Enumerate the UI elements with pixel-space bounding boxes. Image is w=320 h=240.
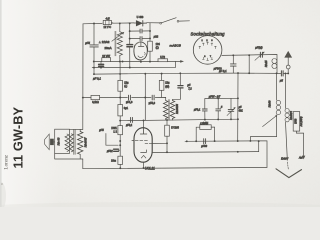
wire T1 bottom lead	[119, 55, 121, 61]
svg-text:12 V C: 12 V C	[103, 26, 111, 29]
wire left vertical	[82, 24, 84, 130]
arrow Erde terminal	[286, 157, 289, 161]
wire T3 hookup top	[69, 129, 82, 131]
wire UY bottom	[140, 60, 142, 62]
wire BX to Ant	[296, 131, 303, 156]
node y152 x238	[237, 151, 239, 153]
svg-text:Rfe6005: Rfe6005	[175, 104, 179, 114]
capacitor C-el1	[127, 45, 133, 47]
svg-text:Ant (60/4): Ant (60/4)	[300, 116, 303, 127]
svg-text:081: 081	[239, 110, 244, 113]
svg-text:10m: 10m	[111, 159, 116, 162]
svg-text:µF5,0: µF5,0	[149, 102, 156, 105]
wire T2 right top	[173, 99, 181, 100]
coil L3	[272, 59, 277, 64]
svg-text:U 408: U 408	[137, 16, 144, 19]
resistor U72	[158, 59, 168, 62]
svg-text:Rfe60/4: Rfe60/4	[290, 111, 293, 120]
svg-text:7,2: 7,2	[188, 88, 192, 91]
transformer T2 left winding	[163, 101, 168, 119]
svg-text:Ant: Ant	[298, 157, 303, 160]
svg-text:12µ: 12µ	[124, 81, 129, 84]
svg-text:⊥ 12Volt: ⊥ 12Volt	[99, 40, 110, 44]
nodes bus B	[93, 73, 95, 75]
svg-text:scABCΒ: scABCΒ	[170, 43, 182, 47]
wire T3 hookup bottom	[55, 154, 83, 160]
ground chassis V	[276, 169, 302, 178]
wire x106 branch	[106, 134, 118, 146]
svg-text:µF: µF	[187, 84, 190, 87]
capacitor Cb2	[217, 98, 219, 119]
capacitor Cb series	[204, 139, 206, 144]
tube UCL11 grid2	[145, 142, 152, 144]
capacitor 50u	[90, 45, 98, 47]
resistor DW1	[118, 126, 123, 135]
title placeholder	[0, 0, 1, 1]
node x83 y97	[82, 97, 84, 99]
transformer T2 core	[169, 100, 170, 120]
capacitor C-s1	[140, 29, 142, 33]
node caps	[129, 30, 131, 32]
nodes line A	[93, 61, 95, 63]
capacitor C-el3	[114, 149, 119, 151]
svg-text:8 7: 8 7	[204, 56, 213, 58]
coil L2	[285, 73, 287, 157]
capacitor C-s2	[140, 37, 142, 41]
resistor R1	[118, 80, 123, 91]
nodes line C	[93, 67, 95, 69]
wire line y152	[152, 141, 259, 152]
capacitor Cb3 variable	[230, 98, 232, 119]
capacitor C-el2	[100, 62, 102, 68]
capacitor C-series right	[281, 71, 283, 76]
svg-text:Lorenz: Lorenz	[4, 154, 10, 169]
fuse F1	[102, 20, 113, 24]
tube UCL11 filament	[141, 155, 146, 158]
arrow L1 adjust	[263, 116, 277, 127]
field winding	[65, 134, 69, 152]
switch S1	[160, 18, 190, 24]
svg-text:(1): (1)	[156, 46, 159, 49]
coil L1	[250, 73, 276, 141]
wire T3 right bottom	[82, 159, 84, 169]
resistor R4	[148, 41, 153, 51]
svg-text:12 V07: 12 V07	[102, 55, 111, 58]
wire y55	[222, 55, 277, 74]
transformer T1 winding	[117, 32, 122, 56]
transformer T3 right winding	[78, 132, 83, 155]
svg-text:(W): (W)	[165, 85, 169, 88]
svg-text:1 2 3: 1 2 3	[202, 40, 215, 42]
filter box BX	[293, 112, 300, 132]
speaker LS	[45, 134, 50, 150]
resistor R01k	[91, 95, 100, 99]
transformer T1 core	[114, 31, 117, 56]
wire lead y143.4	[152, 142, 167, 144]
resistor R2	[118, 105, 123, 116]
node x238 y141	[237, 140, 239, 142]
antenna symbol	[284, 51, 292, 58]
svg-text:-0,5: -0,5	[105, 18, 110, 21]
svg-text:µF0,1: µF0,1	[126, 124, 133, 127]
svg-text:1500: 1500	[295, 118, 297, 124]
svg-text:µF600: µF600	[214, 67, 222, 71]
svg-text:1 2: 1 2	[113, 130, 117, 133]
capacitor Cb1	[204, 99, 206, 120]
wire x249	[248, 55, 250, 73]
nodes y55	[232, 54, 234, 56]
capacitor C y120	[131, 117, 133, 122]
svg-text:Rfe 60: Rfe 60	[56, 137, 60, 145]
resistor B12V	[102, 58, 111, 62]
svg-text:µF 0,1: µF 0,1	[93, 76, 101, 80]
svg-text:Rfe6007: Rfe6007	[84, 137, 88, 147]
tube UCL11	[134, 128, 152, 163]
svg-text:µF02: µF02	[107, 150, 113, 153]
svg-text:0µ1: 0µ1	[124, 107, 129, 110]
wire line C	[92, 61, 175, 67]
node lead	[166, 142, 168, 144]
capacitor trimmer CT	[260, 52, 262, 57]
nodes x120	[119, 97, 121, 99]
resistor R10m	[118, 156, 123, 164]
resistor DY105	[166, 120, 168, 152]
node top x94	[93, 23, 95, 25]
pencil mark	[134, 42, 139, 45]
transformer T2 right winding	[170, 101, 175, 119]
svg-text:Rfe15: Rfe15	[265, 60, 268, 67]
svg-text:(L): (L)	[124, 85, 127, 88]
nodes y120	[143, 119, 145, 121]
svg-text:µF5: µF5	[85, 41, 90, 45]
node y97 x145	[144, 97, 146, 99]
svg-text:0,1kΩ: 0,1kΩ	[92, 101, 99, 104]
capacitor C600	[232, 55, 234, 73]
node bracket	[217, 97, 219, 99]
tube UCL11 grid	[135, 140, 147, 142]
resistor Rb parallel	[196, 127, 214, 141]
tube socket U1	[193, 36, 222, 65]
wire y141	[185, 141, 267, 168]
wire T1 top lead	[119, 23, 121, 31]
wire bottom line	[83, 167, 267, 168]
svg-text:µF5: µF5	[99, 128, 104, 132]
svg-text:Erde: Erde	[281, 157, 287, 160]
svg-text:µ5: µ5	[280, 78, 284, 82]
title overprint	[4, 106, 26, 169]
field coil box	[55, 129, 70, 153]
capacitor C72	[179, 73, 181, 99]
svg-text:0,1M: 0,1M	[203, 122, 208, 125]
svg-text:µF05 - 1/7: µF05 - 1/7	[209, 95, 221, 98]
nodes y141	[186, 140, 188, 142]
wire x130 drop	[129, 23, 131, 67]
transformer T3 left winding	[70, 134, 74, 152]
wire x238	[237, 73, 239, 141]
svg-text:µF0,1: µF0,1	[194, 109, 201, 112]
resistor R3	[161, 74, 163, 98]
wire UCL grid lead	[132, 140, 134, 142]
wire cap link y31	[130, 30, 150, 32]
wire cap link y38.5	[130, 37, 150, 39]
tube UCL11 anode	[140, 128, 147, 134]
wire UCL bottom lead	[143, 162, 145, 168]
arrow line A end	[180, 60, 184, 63]
svg-text:12µ: 12µ	[165, 82, 170, 85]
diode D1	[134, 21, 147, 26]
svg-text:DY105: DY105	[171, 126, 179, 129]
wire x150 drop	[149, 23, 151, 62]
wire x94 drop	[93, 24, 95, 75]
svg-text:µ02: µ02	[154, 34, 159, 38]
tube UCL11 cathode	[141, 150, 147, 153]
svg-text:Rfe60: Rfe60	[269, 100, 272, 107]
svg-text:µF1,8: µF1,8	[126, 101, 133, 104]
svg-text:20mA: 20mA	[105, 46, 112, 50]
capacitor C18	[129, 95, 131, 100]
wire x145 drop	[144, 74, 146, 128]
capacitor C50	[152, 95, 154, 100]
wire y120	[120, 119, 238, 121]
wire top line	[83, 23, 160, 24]
arrow T1 adjust	[112, 33, 123, 41]
svg-text:U72: U72	[160, 55, 165, 59]
wire x120 chain	[119, 62, 121, 169]
svg-text:µF(M): µF(M)	[255, 45, 262, 49]
wire y97.5	[83, 97, 166, 100]
arrow Ant terminal	[302, 156, 305, 160]
wire bracket top	[205, 97, 238, 99]
tube UY1	[134, 42, 147, 60]
wire line A	[94, 60, 181, 62]
svg-text:µF06: µF06	[201, 145, 207, 148]
svg-text:11 GW-BY: 11 GW-BY	[10, 106, 25, 168]
wire bus B	[94, 73, 289, 74]
transformer T3 core	[74, 130, 75, 155]
wire T2 bottoms	[166, 119, 173, 121]
